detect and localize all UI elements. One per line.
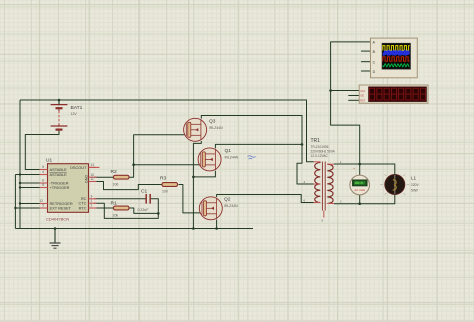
wire secondary bottom to lamp — [334, 195, 395, 204]
svg-text:BAT1: BAT1 — [71, 105, 83, 111]
node annotation artifact — [248, 156, 256, 159]
wire display OE stub — [348, 95, 360, 97]
svg-text:6: 6 — [42, 179, 44, 183]
svg-text:220V/60Hz 50VA: 220V/60Hz 50VA — [311, 150, 336, 154]
wire -TRIGGER row — [20, 182, 48, 184]
voltmeter — [350, 167, 370, 195]
svg-text:TR-Z101906: TR-Z101906 — [311, 145, 329, 149]
resistor R3 — [160, 176, 178, 194]
op-amp oscilloscope — [371, 38, 418, 78]
wire R2 to gates of Q1 Q3 — [129, 135, 188, 177]
svg-text:Q1: Q1 — [225, 148, 232, 154]
wire EXT RESET row — [15, 207, 47, 209]
svg-text:GND: GND — [85, 175, 89, 184]
wire voltmeter bottom lead — [359, 194, 361, 203]
node sources rail junction — [192, 227, 195, 230]
wire C1 right to junction — [150, 199, 158, 214]
wire display RST stub — [348, 99, 360, 101]
svg-text:+: + — [353, 167, 355, 171]
svg-text:12: 12 — [39, 199, 43, 203]
node secondary top junction — [358, 163, 361, 166]
7-segment display — [359, 85, 428, 103]
wire Q3 source down — [193, 141, 201, 229]
wire CTC pin loop — [94, 203, 158, 218]
svg-text:IRLZ44N: IRLZ44N — [224, 204, 238, 208]
node gate junction — [132, 163, 135, 166]
wire gate junction to Q1 gate — [134, 164, 203, 166]
wire R1 right to junction — [129, 208, 158, 213]
svg-text:+TRIGGER: +TRIGGER — [50, 185, 70, 190]
node ground junction — [54, 227, 57, 230]
svg-text:R3: R3 — [160, 176, 167, 182]
svg-text:R2: R2 — [111, 169, 118, 175]
ground — [50, 229, 61, 249]
svg-text:1: 1 — [91, 199, 93, 203]
node drain junction — [301, 143, 304, 146]
svg-text:20k: 20k — [113, 214, 119, 218]
node pin9 junction — [14, 207, 16, 209]
svg-text:13: 13 — [91, 163, 95, 167]
svg-text:9: 9 — [42, 204, 44, 208]
svg-text:12-0-12VAC: 12-0-12VAC — [311, 154, 329, 158]
transformer TR1 — [304, 138, 343, 223]
wire RC pin to C1 — [94, 198, 146, 200]
node pin12 junction — [19, 202, 21, 204]
svg-text:U1: U1 — [46, 158, 52, 164]
wire secondary top to lamp — [334, 164, 395, 175]
wire ground rail — [15, 228, 253, 230]
wire scope B stub — [361, 50, 371, 52]
node source junction — [192, 176, 195, 179]
node Q2 source junction — [215, 227, 218, 230]
svg-text:5: 5 — [42, 165, 44, 169]
svg-text:ASTABLE: ASTABLE — [50, 172, 68, 177]
wire /ASTABLE row — [15, 174, 47, 176]
svg-text:IRLZ44N: IRLZ44N — [209, 126, 223, 130]
svg-text:0.22uF: 0.22uF — [138, 208, 149, 212]
node pin8 junction — [19, 186, 21, 188]
svg-text:50W: 50W — [411, 189, 419, 193]
wire OSC OUT stub — [89, 166, 100, 168]
svg-text:OSCOUT: OSCOUT — [70, 165, 87, 170]
wire Q3 drain to transformer tap 4 — [201, 116, 313, 185]
svg-text:100: 100 — [113, 182, 119, 186]
svg-text:R1: R1 — [111, 201, 118, 207]
svg-text:IRLZ44N: IRLZ44N — [225, 156, 239, 160]
svg-text:L1: L1 — [411, 176, 417, 181]
wire scope D stub — [361, 70, 371, 72]
wire Q2 source — [216, 220, 218, 229]
svg-text:12V: 12V — [71, 112, 78, 116]
node battery top junction — [58, 99, 61, 102]
resistor R1 — [111, 201, 130, 218]
transistor Q1 — [198, 148, 239, 171]
wire Q1 drain to drain junction — [215, 144, 302, 148]
resistor R2 — [111, 169, 130, 187]
wire +TRIGGER row — [20, 187, 48, 189]
node scope display junction — [329, 89, 332, 92]
transistor Q2 — [199, 197, 238, 220]
wire scope C stub — [361, 61, 371, 63]
svg-text:RTC: RTC — [79, 205, 87, 210]
wire /Q output to R3 — [94, 182, 162, 190]
svg-text:RST: RST — [360, 98, 366, 102]
svg-text:EXT RESET: EXT RESET — [50, 205, 72, 210]
wire RETRIGGER row — [20, 203, 48, 205]
node pin4 junction — [19, 173, 21, 175]
capacitor C1 — [138, 189, 151, 212]
node pin6 junction — [19, 182, 21, 184]
wire Q1 source — [193, 171, 215, 177]
wire battery negative to ASTABLE — [25, 131, 59, 170]
battery BAT1 — [51, 100, 83, 131]
wire display CLK — [331, 90, 360, 92]
svg-text:CLK: CLK — [360, 89, 365, 93]
svg-text:4: 4 — [42, 170, 44, 174]
wire R3 to Q2 gate — [179, 185, 204, 213]
svg-text:OE: OE — [360, 94, 364, 98]
svg-text:TR1: TR1 — [311, 138, 321, 144]
node timing junction — [157, 212, 160, 215]
lamp L1 — [380, 174, 419, 195]
svg-text:C1: C1 — [141, 189, 148, 195]
wire Q output to R2 — [94, 176, 114, 178]
op-amp U1 CD4047BCN — [39, 158, 96, 222]
wire left inner rail — [14, 175, 16, 229]
svg-text:Q2: Q2 — [224, 197, 231, 203]
svg-text:3: 3 — [91, 194, 93, 198]
svg-text:Q3: Q3 — [209, 119, 216, 125]
wire Q2 drain to transformer pin 6 — [217, 195, 314, 203]
wire oscilloscope channel A — [331, 42, 371, 164]
wire left rail — [19, 100, 21, 229]
svg-text:2: 2 — [91, 204, 93, 208]
svg-text:100: 100 — [162, 190, 168, 194]
wire voltmeter top lead — [359, 164, 361, 176]
wire top +12V rail — [20, 100, 314, 162]
svg-text:CD4047BCN: CD4047BCN — [46, 217, 69, 222]
node secondary bottom junction — [358, 202, 361, 205]
svg-text:220V: 220V — [411, 183, 420, 187]
wire RTC to R1 — [94, 207, 114, 209]
svg-text:8: 8 — [42, 183, 44, 187]
svg-text:AC Volts: AC Volts — [354, 188, 365, 192]
svg-text:11: 11 — [91, 177, 95, 181]
transistor Q3 — [184, 118, 224, 141]
